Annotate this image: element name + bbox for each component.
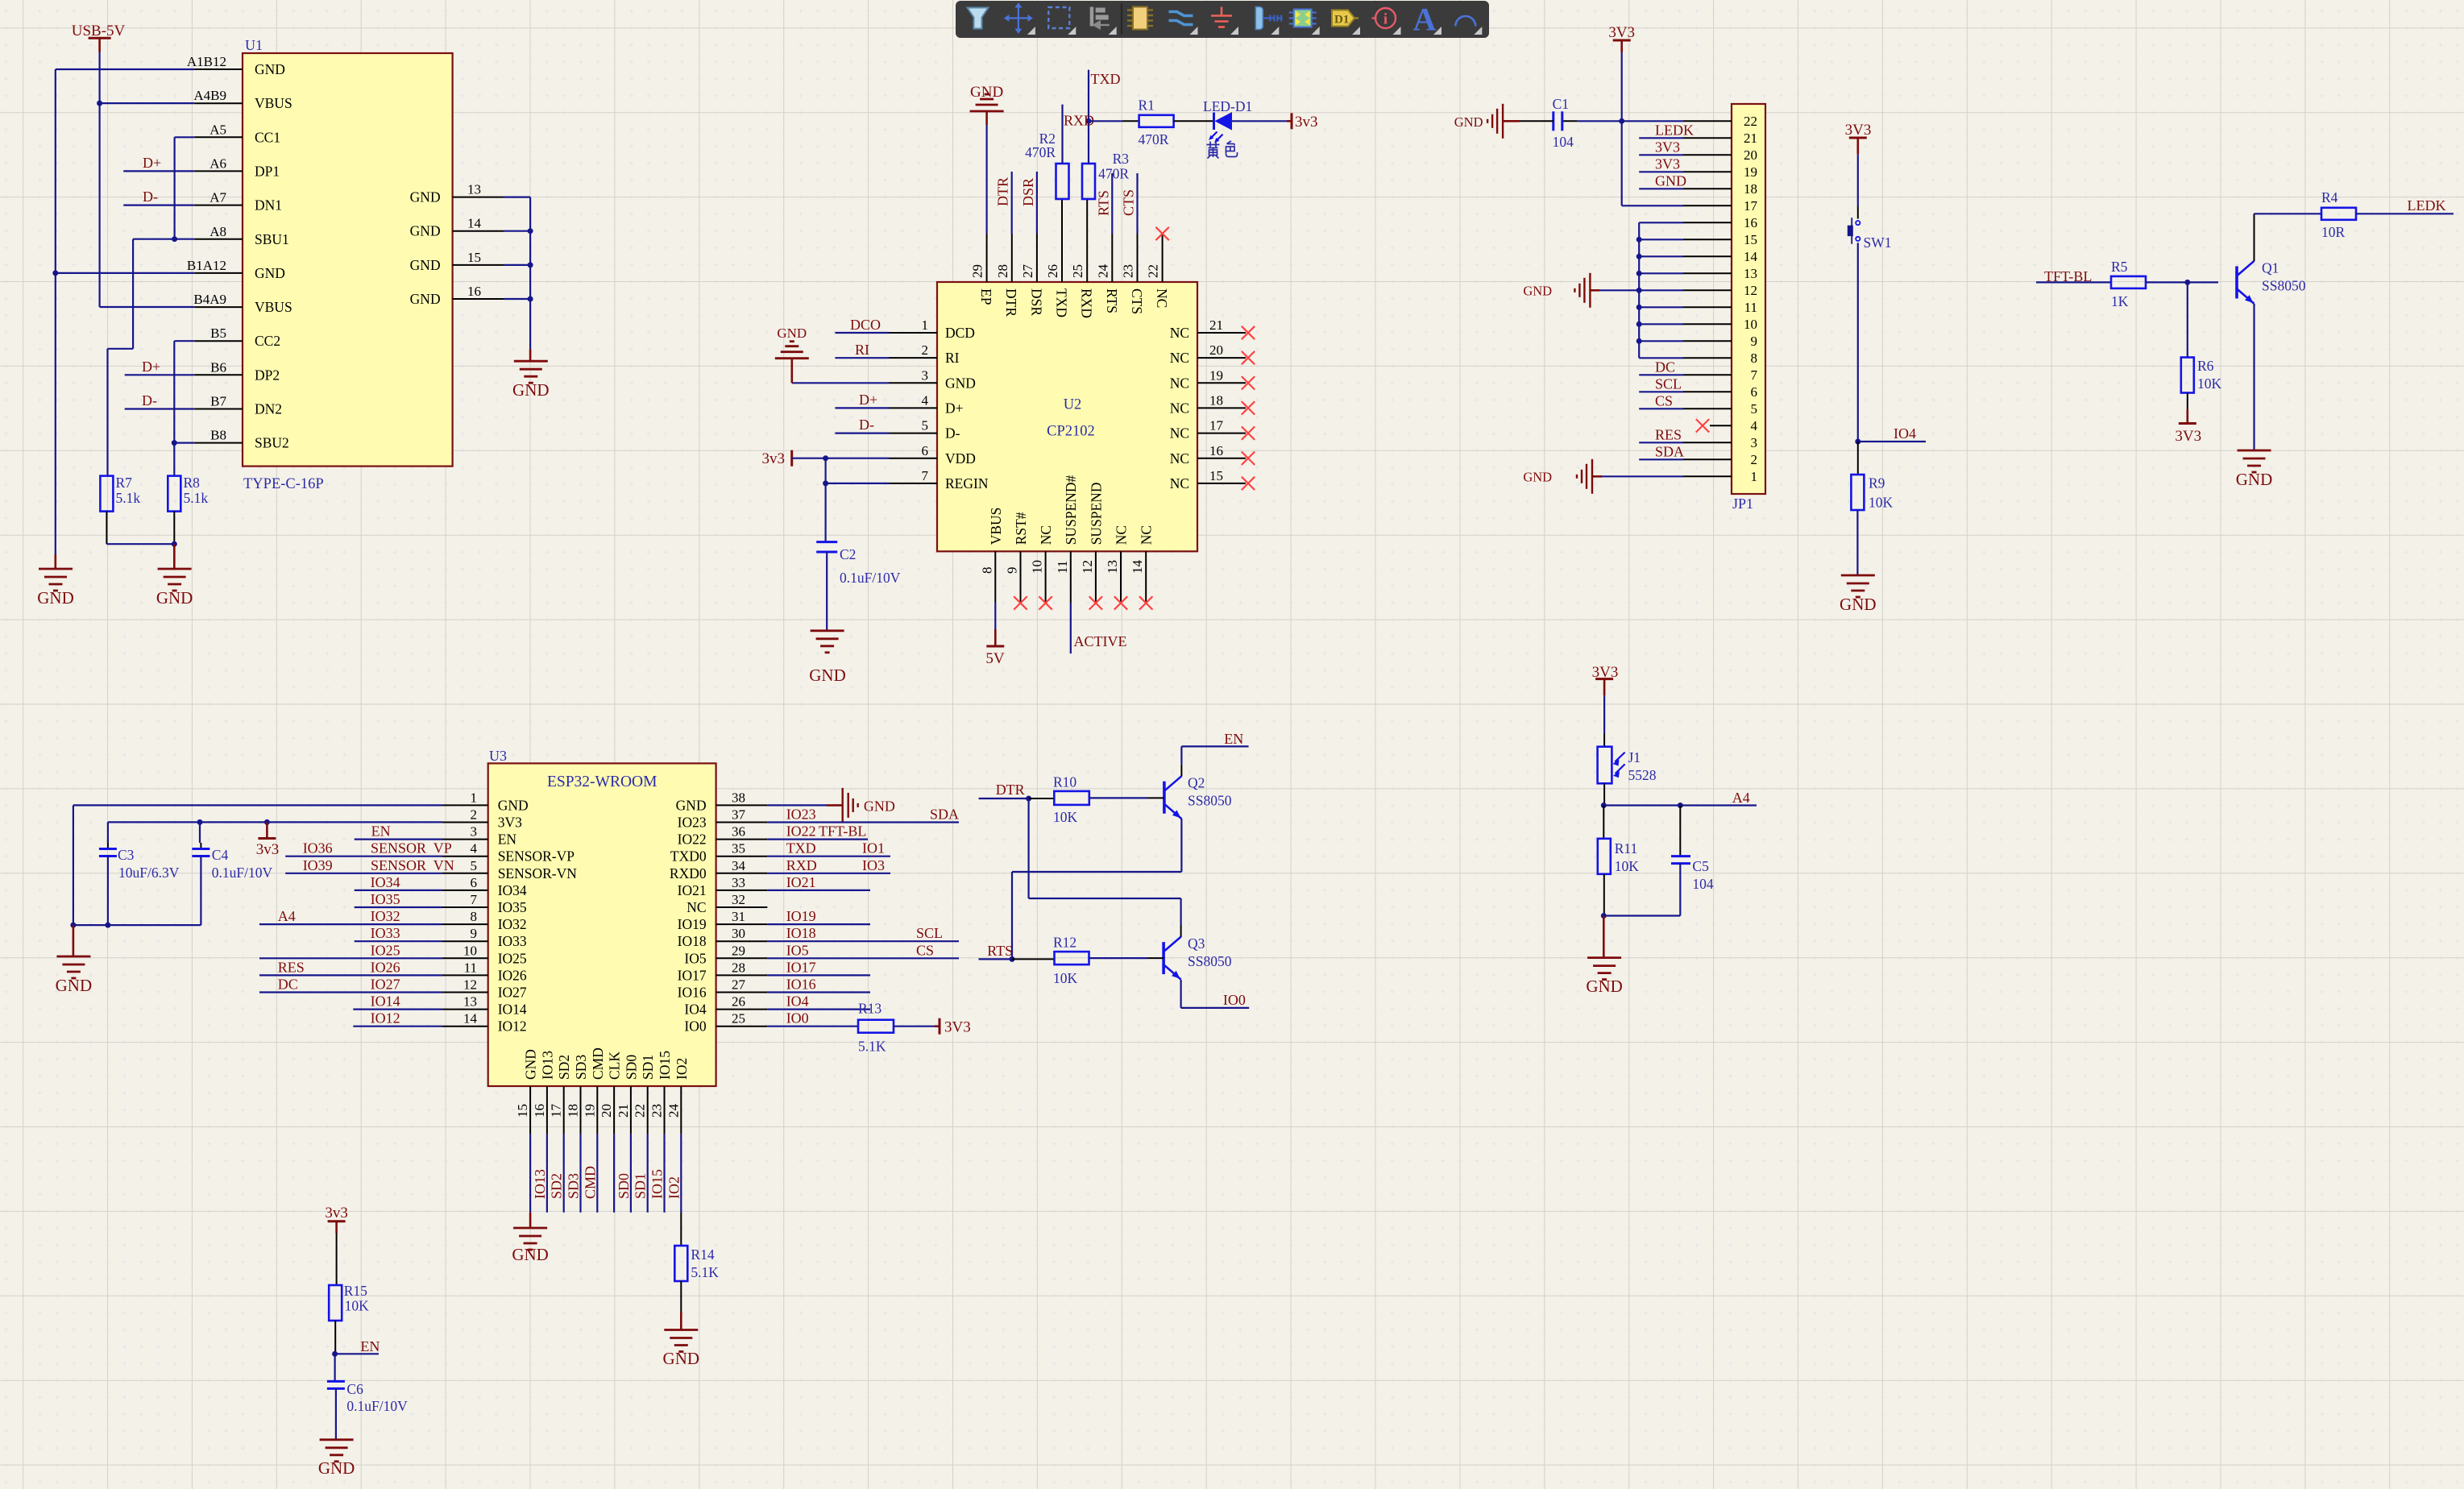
svg-text:EN: EN — [360, 1338, 380, 1354]
svg-text:SCL: SCL — [1655, 375, 1682, 392]
svg-text:10K: 10K — [1053, 809, 1078, 825]
svg-text:D+: D+ — [859, 392, 877, 408]
svg-text:470R: 470R — [1139, 131, 1169, 147]
svg-text:R9: R9 — [1869, 475, 1885, 491]
svg-text:SS8050: SS8050 — [1188, 953, 1232, 969]
svg-text:DSR: DSR — [1020, 178, 1036, 206]
svg-text:IO22: IO22 — [678, 832, 707, 848]
svg-text:18: 18 — [566, 1104, 581, 1118]
svg-text:3v3: 3v3 — [762, 450, 786, 467]
svg-text:SD1: SD1 — [633, 1173, 649, 1199]
svg-text:IO13: IO13 — [539, 1051, 555, 1080]
svg-text:R7: R7 — [116, 475, 133, 491]
svg-text:RI: RI — [945, 350, 960, 366]
svg-text:34: 34 — [732, 858, 746, 873]
svg-text:470R: 470R — [1025, 144, 1056, 160]
svg-text:A8: A8 — [209, 224, 226, 239]
svg-text:IO32: IO32 — [498, 916, 527, 932]
svg-text:GND: GND — [512, 1245, 549, 1264]
svg-text:Q2: Q2 — [1188, 775, 1205, 791]
svg-text:IO4: IO4 — [684, 1002, 706, 1018]
svg-text:IO1: IO1 — [862, 840, 885, 856]
svg-text:GND: GND — [2236, 470, 2273, 489]
svg-text:31: 31 — [732, 909, 745, 924]
svg-text:R11: R11 — [1615, 840, 1638, 856]
svg-text:12: 12 — [463, 977, 477, 993]
svg-text:NC: NC — [1170, 350, 1189, 366]
svg-text:U3: U3 — [489, 748, 507, 764]
svg-text:IO39: IO39 — [303, 857, 333, 873]
svg-text:IO12: IO12 — [371, 1010, 400, 1027]
svg-text:NC: NC — [1170, 375, 1189, 391]
svg-text:9: 9 — [471, 926, 478, 941]
svg-text:IO14: IO14 — [498, 1002, 527, 1018]
svg-text:21: 21 — [1744, 131, 1757, 146]
svg-text:TYPE-C-16P: TYPE-C-16P — [243, 476, 324, 492]
svg-text:GND: GND — [410, 291, 441, 307]
svg-text:IO19: IO19 — [786, 908, 816, 924]
svg-text:GND: GND — [318, 1458, 355, 1478]
svg-text:IO25: IO25 — [371, 942, 400, 958]
svg-text:7: 7 — [922, 468, 929, 483]
svg-text:6: 6 — [471, 875, 478, 890]
svg-text:IO34: IO34 — [498, 882, 527, 898]
svg-text:8: 8 — [1751, 350, 1758, 366]
svg-text:A1B12: A1B12 — [187, 54, 226, 69]
svg-text:GND: GND — [498, 797, 529, 813]
svg-text:17: 17 — [549, 1104, 564, 1118]
svg-text:IO33: IO33 — [498, 933, 527, 949]
svg-text:IO34: IO34 — [371, 874, 400, 890]
svg-text:GND: GND — [255, 265, 285, 281]
svg-text:GND: GND — [56, 976, 93, 995]
svg-text:16: 16 — [1209, 443, 1223, 458]
svg-text:104: 104 — [1692, 876, 1714, 892]
svg-text:IO21: IO21 — [786, 874, 816, 890]
svg-text:JP1: JP1 — [1732, 496, 1753, 512]
svg-text:10K: 10K — [345, 1298, 370, 1314]
svg-text:NC: NC — [1170, 450, 1189, 467]
svg-text:GND: GND — [1586, 977, 1623, 996]
svg-text:5V: 5V — [985, 650, 1005, 667]
svg-text:10K: 10K — [1615, 858, 1640, 874]
svg-text:R15: R15 — [344, 1283, 367, 1299]
svg-text:i: i — [1383, 11, 1388, 28]
svg-text:18: 18 — [1744, 181, 1757, 197]
svg-text:IO16: IO16 — [786, 977, 816, 993]
svg-text:B1A12: B1A12 — [187, 258, 226, 273]
svg-text:11: 11 — [464, 960, 477, 975]
svg-text:29: 29 — [732, 943, 745, 958]
svg-text:U1: U1 — [245, 37, 263, 53]
svg-text:SENSOR VN: SENSOR VN — [371, 857, 454, 873]
svg-text:IO4: IO4 — [786, 993, 809, 1010]
svg-text:DN2: DN2 — [255, 401, 282, 417]
svg-text:DCD: DCD — [945, 325, 975, 341]
svg-text:GND: GND — [1523, 283, 1552, 298]
svg-text:LED-D1: LED-D1 — [1203, 98, 1252, 114]
svg-text:REGIN: REGIN — [945, 475, 989, 491]
svg-text:NC: NC — [1170, 400, 1189, 417]
svg-text:5: 5 — [922, 418, 929, 433]
svg-text:SENSOR-VP: SENSOR-VP — [498, 848, 575, 865]
svg-text:EP: EP — [978, 288, 994, 305]
svg-text:D-: D- — [142, 392, 157, 409]
svg-text:TXD: TXD — [786, 840, 816, 856]
svg-text:28: 28 — [732, 960, 745, 975]
svg-text:RXD: RXD — [1079, 288, 1095, 318]
svg-text:RTS: RTS — [1104, 288, 1120, 313]
svg-text:GND: GND — [777, 326, 807, 341]
svg-text:R10: R10 — [1053, 774, 1076, 790]
svg-text:NC: NC — [1154, 288, 1170, 308]
svg-text:A6: A6 — [209, 156, 226, 171]
svg-text:18: 18 — [1209, 392, 1223, 408]
svg-text:19: 19 — [1209, 367, 1223, 383]
svg-text:DTR: DTR — [995, 177, 1011, 206]
svg-text:IO15: IO15 — [649, 1169, 666, 1199]
svg-text:Q3: Q3 — [1188, 935, 1205, 952]
svg-text:R6: R6 — [2197, 358, 2214, 374]
svg-text:R5: R5 — [2111, 259, 2128, 275]
svg-text:TFT-BL: TFT-BL — [819, 823, 866, 840]
svg-text:GND: GND — [809, 666, 846, 685]
svg-text:SD0: SD0 — [623, 1055, 639, 1080]
svg-text:14: 14 — [1744, 249, 1758, 264]
svg-text:23: 23 — [649, 1104, 665, 1118]
svg-text:21: 21 — [1209, 317, 1223, 333]
svg-text:IO2: IO2 — [666, 1176, 682, 1199]
svg-text:0.1uF/10V: 0.1uF/10V — [840, 570, 901, 586]
svg-text:R8: R8 — [184, 475, 201, 491]
svg-text:3V3: 3V3 — [1608, 24, 1635, 41]
svg-text:7: 7 — [1751, 367, 1758, 383]
svg-text:A: A — [1413, 2, 1437, 38]
svg-text:R14: R14 — [691, 1246, 714, 1263]
svg-text:GND: GND — [255, 61, 285, 77]
svg-text:RST#: RST# — [1013, 512, 1029, 545]
svg-text:B5: B5 — [210, 326, 226, 341]
svg-text:SD0: SD0 — [616, 1173, 632, 1199]
svg-text:CS: CS — [916, 942, 934, 958]
svg-text:14: 14 — [467, 216, 482, 231]
svg-text:TXD0: TXD0 — [670, 848, 707, 865]
svg-text:13: 13 — [1744, 266, 1757, 281]
svg-text:SBU1: SBU1 — [255, 231, 289, 247]
svg-text:CC2: CC2 — [255, 333, 280, 349]
svg-text:GND: GND — [945, 375, 976, 391]
svg-text:IO15: IO15 — [657, 1051, 673, 1080]
svg-text:IO27: IO27 — [498, 985, 527, 1001]
svg-text:D1: D1 — [1334, 14, 1349, 27]
svg-text:10K: 10K — [1869, 495, 1894, 511]
svg-text:IO5: IO5 — [786, 942, 809, 958]
svg-text:B6: B6 — [210, 359, 226, 375]
svg-text:IO23: IO23 — [786, 807, 816, 823]
svg-text:16: 16 — [532, 1104, 547, 1118]
svg-text:27: 27 — [732, 977, 746, 993]
svg-text:15: 15 — [467, 250, 481, 265]
svg-text:A4: A4 — [278, 908, 296, 924]
svg-text:SD2: SD2 — [549, 1173, 565, 1199]
svg-text:GND: GND — [1655, 172, 1686, 189]
svg-text:5: 5 — [471, 858, 478, 873]
svg-text:IO0: IO0 — [1223, 992, 1246, 1008]
svg-text:35: 35 — [732, 841, 745, 856]
svg-text:IO3: IO3 — [862, 857, 885, 873]
svg-text:A4B9: A4B9 — [193, 88, 226, 103]
svg-text:DC: DC — [278, 977, 298, 993]
svg-text:1: 1 — [471, 790, 478, 805]
svg-text:VDD: VDD — [945, 450, 976, 467]
svg-text:RES: RES — [278, 959, 305, 975]
svg-text:IO35: IO35 — [498, 899, 527, 915]
svg-text:2: 2 — [1751, 452, 1758, 467]
svg-text:7: 7 — [471, 892, 478, 907]
svg-text:DN1: DN1 — [255, 197, 282, 214]
svg-text:CP2102: CP2102 — [1047, 424, 1095, 440]
svg-text:D-: D- — [945, 425, 960, 442]
svg-text:SENSOR VP: SENSOR VP — [371, 840, 452, 856]
svg-text:SD2: SD2 — [556, 1055, 572, 1080]
svg-text:SD3: SD3 — [573, 1055, 589, 1080]
svg-text:26: 26 — [732, 994, 745, 1010]
svg-text:22: 22 — [1744, 114, 1757, 129]
svg-text:C3: C3 — [118, 847, 135, 863]
svg-text:3: 3 — [471, 824, 478, 840]
svg-text:DTR: DTR — [1003, 288, 1019, 317]
svg-text:NC: NC — [1170, 475, 1189, 491]
svg-text:1: 1 — [1751, 469, 1758, 484]
svg-text:R1: R1 — [1139, 97, 1155, 114]
svg-text:25: 25 — [732, 1011, 745, 1027]
svg-text:IO18: IO18 — [678, 933, 707, 949]
svg-text:3: 3 — [922, 367, 929, 383]
svg-text:SD1: SD1 — [640, 1055, 656, 1080]
svg-text:0.1uF/10V: 0.1uF/10V — [346, 1398, 408, 1414]
svg-text:28: 28 — [995, 264, 1010, 278]
svg-text:C1: C1 — [1553, 96, 1569, 112]
svg-text:6: 6 — [1751, 384, 1758, 400]
svg-text:ACTIVE: ACTIVE — [1074, 633, 1127, 649]
svg-text:ESP32-WROOM: ESP32-WROOM — [547, 774, 657, 790]
svg-text:IO5: IO5 — [684, 950, 706, 966]
svg-text:12: 12 — [1744, 283, 1757, 298]
svg-text:GND: GND — [410, 223, 441, 239]
svg-text:CMD: CMD — [582, 1166, 598, 1199]
svg-text:SDA: SDA — [1655, 443, 1684, 459]
svg-text:NC: NC — [687, 899, 706, 915]
svg-text:D+: D+ — [945, 400, 964, 417]
svg-text:A4: A4 — [1732, 790, 1750, 806]
svg-text:4: 4 — [1751, 418, 1758, 433]
svg-text:IO25: IO25 — [498, 950, 527, 966]
svg-text:24: 24 — [666, 1104, 681, 1118]
svg-text:VBUS: VBUS — [988, 508, 1004, 545]
svg-text:RXD: RXD — [786, 857, 817, 873]
svg-text:IO36: IO36 — [303, 840, 333, 856]
svg-text:24: 24 — [1095, 264, 1110, 279]
svg-text:CC1: CC1 — [255, 129, 280, 145]
svg-text:13: 13 — [1105, 560, 1120, 574]
svg-text:GND: GND — [663, 1349, 700, 1368]
svg-text:RXD0: RXD0 — [670, 865, 707, 881]
svg-text:19: 19 — [1744, 164, 1757, 180]
svg-text:5528: 5528 — [1628, 767, 1657, 783]
svg-text:EN: EN — [498, 832, 517, 848]
svg-text:20: 20 — [599, 1104, 614, 1118]
svg-text:IO16: IO16 — [678, 985, 707, 1001]
svg-text:10R: 10R — [2321, 224, 2346, 240]
svg-text:SS8050: SS8050 — [2262, 277, 2306, 293]
svg-text:3V3: 3V3 — [2175, 428, 2201, 445]
svg-text:GND: GND — [523, 1049, 539, 1080]
svg-text:GND: GND — [1454, 114, 1483, 130]
svg-text:B4A9: B4A9 — [193, 292, 226, 307]
svg-text:DTR: DTR — [996, 782, 1025, 798]
svg-text:9: 9 — [1751, 334, 1758, 349]
svg-text:IO0: IO0 — [786, 1010, 809, 1027]
svg-text:21: 21 — [616, 1104, 631, 1118]
svg-text:36: 36 — [732, 824, 745, 840]
svg-text:GND: GND — [970, 84, 1003, 101]
svg-text:25: 25 — [1070, 264, 1085, 278]
svg-text:GND: GND — [1523, 469, 1552, 484]
svg-text:3V3: 3V3 — [498, 815, 522, 831]
svg-text:U2: U2 — [1064, 397, 1082, 413]
svg-text:GND: GND — [512, 380, 550, 400]
svg-text:RI: RI — [855, 342, 869, 358]
svg-text:1: 1 — [922, 317, 929, 333]
svg-text:19: 19 — [582, 1104, 597, 1118]
svg-text:15: 15 — [1744, 232, 1757, 247]
svg-text:D-: D- — [859, 417, 874, 433]
svg-text:CS: CS — [1655, 392, 1673, 409]
svg-text:D+: D+ — [143, 155, 161, 171]
svg-text:GND: GND — [156, 588, 193, 608]
svg-text:CTS: CTS — [1121, 189, 1137, 216]
svg-text:32: 32 — [732, 892, 745, 907]
svg-text:IO14: IO14 — [371, 993, 400, 1010]
svg-text:RTS: RTS — [1095, 190, 1111, 216]
svg-text:Q1: Q1 — [2262, 259, 2279, 276]
svg-text:SS8050: SS8050 — [1188, 793, 1232, 809]
svg-text:10: 10 — [463, 943, 477, 958]
svg-text:2: 2 — [922, 342, 929, 358]
svg-text:B8: B8 — [210, 428, 226, 443]
svg-text:3V3: 3V3 — [1845, 122, 1872, 139]
svg-text:SENSOR-VN: SENSOR-VN — [498, 865, 578, 881]
svg-text:IO0: IO0 — [684, 1018, 706, 1035]
svg-text:3V3: 3V3 — [944, 1019, 971, 1036]
svg-text:NC: NC — [1170, 425, 1189, 442]
svg-text:1K: 1K — [2111, 293, 2129, 309]
svg-text:IO18: IO18 — [786, 925, 816, 941]
svg-text:NC: NC — [1170, 325, 1189, 341]
svg-text:CMD: CMD — [590, 1047, 606, 1080]
svg-text:16: 16 — [1744, 215, 1757, 230]
svg-text:30: 30 — [732, 926, 745, 941]
svg-text:10K: 10K — [1053, 970, 1078, 986]
svg-text:9: 9 — [1005, 567, 1020, 574]
svg-text:SBU2: SBU2 — [255, 435, 289, 451]
svg-text:16: 16 — [467, 284, 481, 299]
svg-text:4: 4 — [922, 392, 929, 408]
svg-text:IO33: IO33 — [371, 925, 400, 941]
svg-text:6: 6 — [922, 443, 929, 458]
svg-text:R4: R4 — [2321, 189, 2338, 205]
svg-text:IO27: IO27 — [371, 977, 400, 993]
svg-text:33: 33 — [732, 875, 745, 890]
svg-text:26: 26 — [1045, 264, 1060, 278]
svg-text:5.1K: 5.1K — [858, 1039, 886, 1055]
svg-text:15: 15 — [515, 1104, 530, 1118]
svg-text:C6: C6 — [346, 1381, 363, 1397]
svg-text:10K: 10K — [2197, 375, 2222, 392]
svg-text:5.1k: 5.1k — [184, 490, 209, 506]
svg-text:IO17: IO17 — [678, 967, 707, 983]
svg-text:14: 14 — [1130, 560, 1145, 574]
svg-text:C5: C5 — [1692, 858, 1709, 874]
svg-text:10: 10 — [1744, 317, 1757, 332]
svg-text:VBUS: VBUS — [255, 95, 292, 111]
svg-text:15: 15 — [1209, 468, 1223, 483]
svg-text:R3: R3 — [1113, 151, 1130, 167]
svg-text:IO4: IO4 — [1894, 425, 1916, 442]
svg-text:IO26: IO26 — [371, 959, 400, 975]
svg-text:3v3: 3v3 — [256, 841, 280, 858]
svg-text:C2: C2 — [840, 546, 856, 562]
svg-text:EN: EN — [371, 823, 391, 840]
svg-text:RTS: RTS — [987, 943, 1013, 959]
svg-text:27: 27 — [1020, 264, 1035, 279]
svg-text:IO21: IO21 — [678, 882, 707, 898]
svg-text:LEDK: LEDK — [2408, 197, 2446, 214]
svg-text:LEDK: LEDK — [1655, 122, 1694, 138]
svg-text:CLK: CLK — [607, 1051, 623, 1080]
svg-text:C4: C4 — [212, 847, 229, 863]
svg-text:D-: D- — [143, 189, 158, 205]
svg-text:12: 12 — [1080, 560, 1095, 574]
svg-text:IO19: IO19 — [678, 916, 707, 932]
svg-text:22: 22 — [1146, 264, 1161, 278]
svg-text:17: 17 — [1209, 418, 1224, 433]
svg-text:A7: A7 — [209, 190, 226, 205]
svg-text:DC: DC — [1655, 359, 1675, 375]
svg-text:3v3: 3v3 — [1295, 114, 1318, 131]
svg-text:J1: J1 — [1628, 749, 1641, 765]
svg-text:IO17: IO17 — [786, 959, 816, 975]
svg-text:GND: GND — [37, 588, 74, 608]
svg-text:3V3: 3V3 — [1655, 139, 1680, 155]
svg-text:DP1: DP1 — [255, 163, 280, 179]
svg-text:GND: GND — [676, 797, 707, 813]
svg-text:IO2: IO2 — [674, 1058, 690, 1080]
svg-text:IO32: IO32 — [371, 908, 400, 924]
svg-text:22: 22 — [633, 1104, 648, 1118]
svg-text:29: 29 — [970, 264, 985, 278]
svg-text:GND: GND — [864, 798, 895, 814]
svg-text:3V3: 3V3 — [1655, 156, 1680, 172]
svg-text:SD3: SD3 — [566, 1173, 582, 1199]
svg-text:B7: B7 — [210, 394, 226, 409]
svg-text:EN: EN — [1224, 731, 1243, 747]
svg-text:SCL: SCL — [916, 925, 943, 941]
svg-text:CTS: CTS — [1129, 288, 1145, 314]
svg-text:17: 17 — [1744, 198, 1758, 214]
svg-text:GND: GND — [410, 257, 441, 273]
svg-text:RES: RES — [1655, 426, 1682, 442]
